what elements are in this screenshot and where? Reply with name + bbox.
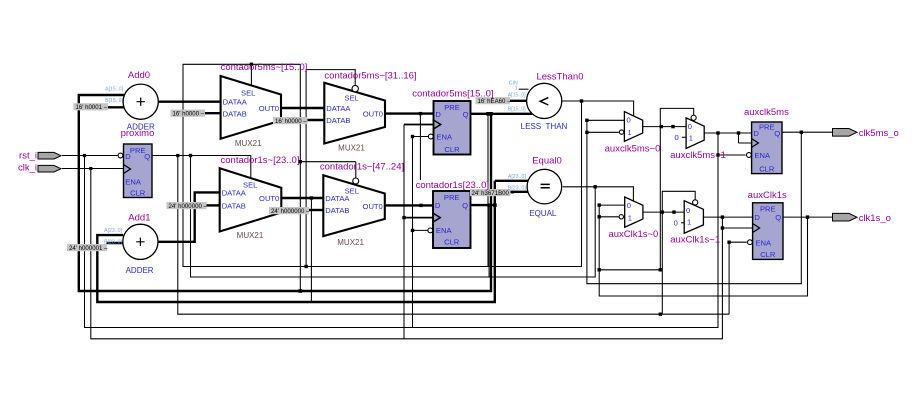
svg-text:1: 1 [628,213,632,222]
svg-text:DATAB: DATAB [325,206,349,215]
svg-text:16' h0000 –: 16' h0000 – [173,111,205,118]
wire auxClk1s~1 const 0 input [681,222,684,224]
wire tie line between aux feedback verticals [599,269,660,271]
svg-text:ENA: ENA [754,151,771,160]
wire LessThan0 CIN tick [519,88,529,90]
svg-text:clk1s_o: clk1s_o [859,213,891,224]
wire MUX3 output junction drop [310,198,312,302]
svg-text:CLR: CLR [444,145,460,154]
svg-text:0: 0 [627,201,631,210]
wire Equal0 output to auxClk1s~0 SEL [563,187,634,201]
wire Add1 B constant [106,242,123,244]
mux auxclk5ms~1 [686,118,704,149]
wire MUX2 output junction drop [419,114,421,180]
svg-text:24' h000000 –: 24' h000000 – [169,203,208,210]
svg-text:0: 0 [688,122,692,131]
svg-text:auxClk1s~1: auxClk1s~1 [670,234,720,245]
svg-text:rst_i: rst_i [19,151,37,162]
svg-text:Q: Q [775,213,781,222]
wire MUX3 DATAB constant [206,204,220,206]
value label 24'h000001 (Add1 B) [67,244,107,251]
wire MUX2 DATAB feedback riser [299,64,301,291]
wire auxclk5ms~0 data inputs from feedback riser [587,120,801,283]
mux21 contador5ms~[31..16] MUX2 [324,83,385,144]
svg-text:auxclk5ms~1: auxclk5ms~1 [670,150,726,161]
svg-text:MUX21: MUX21 [235,139,262,148]
svg-text:DATAA: DATAA [223,98,248,107]
output port clk5ms_o [833,129,858,137]
svg-text:D: D [754,213,760,222]
wire MUX2 SEL tap from B3 [306,70,355,267]
svg-text:PRE: PRE [444,103,460,112]
wire Add0 A input from feedback B1 [79,95,491,291]
svg-text:1: 1 [515,85,518,91]
svg-text:Add1: Add1 [128,213,150,224]
svg-text:24' h000000 –: 24' h000000 – [271,208,310,215]
mux21 contador5ms~[15..0] MUX1 [221,76,281,139]
mux21 contador1s~[47..24] MUX4 [323,175,385,236]
value label 24'h000000 (MUX4 DATAB) [269,207,309,214]
wire Add0 output to MUX1 DATAA [158,100,220,102]
svg-text:LessThan0: LessThan0 [536,71,583,82]
svg-text:ENA: ENA [755,238,772,247]
wire auxClk1s~0 output to auxClk1s~1 [643,211,684,213]
value label 16'h0000 (MUX2 DATAB) [273,117,308,124]
wire clk_i to proximo clock [62,168,124,170]
comparator Equal0 [527,169,562,204]
wire auxclk5ms~1 const 0 input [682,136,686,138]
auxClk1s~0 input 1 bubble [619,215,623,219]
output port clk1s_o [833,213,858,221]
register contador5ms[15..0] [434,101,471,155]
mux auxClk1s~1 [684,201,703,234]
auxclk5ms~1 SEL bubble [691,115,696,120]
wire MUX4 DATAB constant [309,209,323,211]
input port clk_i [38,165,61,172]
wire SEL feed MUX4 from riser [300,162,356,178]
wire auxclk5ms~1 output to auxclk5ms D [704,132,751,134]
wire contador5ms Q into LessThan0 B [471,113,533,115]
wire LessThan0 A constant stub [508,100,527,102]
svg-text:A[15..0]: A[15..0] [508,92,526,98]
wire MUX1 OUT0 to MUX2 DATAA [281,107,324,109]
wire auxClk1s~0 data inputs from feedback riser [599,205,807,296]
auxclk5ms~0 input 1 bubble [619,130,623,134]
svg-text:DATAA: DATAA [325,194,350,203]
wire Add1 A input from feedback B2 [97,181,528,302]
register auxClk1s [753,203,783,260]
value label 16'h0000 (MUX1 DATAB) [171,110,206,117]
wire auxclk5ms clock tap [739,133,752,143]
svg-text:contador1s~[47..24]: contador1s~[47..24] [320,162,404,173]
svg-text:B[15..0]: B[15..0] [105,98,123,104]
svg-text:contador5ms~[15..0]: contador5ms~[15..0] [221,62,308,73]
svg-text:16' h0000 –: 16' h0000 – [275,118,307,125]
wire auxClk1s Q to output port [783,216,833,218]
svg-text:clk_i: clk_i [18,163,37,174]
wire rst_i to proximo D bubble [62,155,118,157]
svg-text:auxClk1s~0: auxClk1s~0 [608,229,658,240]
svg-text:DATAB: DATAB [223,109,247,118]
svg-text:CLR: CLR [444,238,460,247]
wire contador1s Q thin feedback drop [488,205,490,277]
svg-text:0: 0 [674,219,678,228]
wire LessThan0 net drop + bottom run B3 + MUX1 SEL riser [183,64,582,266]
MUX4 SEL bubble [353,178,359,184]
svg-text:D: D [753,129,759,138]
mux21 contador1s~[23..0] MUX3 [220,168,282,231]
svg-text:LESS THAN: LESS THAN [521,122,568,131]
svg-text:D: D [125,152,131,161]
svg-text:A[23..0]: A[23..0] [104,228,122,234]
wire LessThan0 output to auxclk5ms~0 SEL [563,101,634,116]
svg-text:0: 0 [627,116,631,125]
wire contador5ms Q thin feedback drop [487,114,489,267]
wire Add1 output to MUX3 DATAA [158,192,220,241]
wire proximo Q net: down, bottom run B5 [152,156,729,315]
svg-text:ENA: ENA [436,226,453,235]
svg-text:MUX21: MUX21 [237,231,264,240]
comparator LessThan0 [527,83,562,118]
wire rst net: left drop, bottom run, right riser, ENA stubs [85,133,746,328]
register contador1s[23..0] [433,191,471,248]
svg-text:D: D [435,110,441,119]
svg-text:A[23..0]: A[23..0] [508,174,526,180]
svg-text:OUT0: OUT0 [363,110,383,119]
svg-text:Q: Q [144,152,150,161]
wire clk net: left drop, bottom run, right riser, clock stubs [91,169,753,339]
svg-text:OUT0: OUT0 [259,104,279,113]
value label 16'h0001 (Add0 B) [74,103,109,110]
svg-text:ENA: ENA [436,133,453,142]
wire SEL feed auxClk1s~1: riser, run, into bubble [662,191,695,314]
svg-text:PRE: PRE [760,205,776,214]
svg-text:ADDER: ADDER [127,123,155,132]
wire MUX3 OUT0 to MUX4 DATAA [281,197,323,199]
svg-text:contador1s[23..0]: contador1s[23..0] [416,180,489,191]
wire ENA mid riser + stubs to contador FF enables [413,137,429,328]
svg-text:auxClk1s: auxClk1s [748,190,787,201]
svg-text:clk5ms_o: clk5ms_o [859,128,899,139]
svg-text:PRE: PRE [444,193,460,202]
svg-text:auxclk5ms: auxclk5ms [744,107,789,118]
svg-text:0: 0 [675,133,679,142]
svg-text:OUT0: OUT0 [363,202,383,211]
svg-text:auxclk5ms~0: auxclk5ms~0 [605,143,661,154]
junction dots [83,154,86,157]
wire clock stubs into contador registers [404,125,434,218]
wire auxClk1s ENA feed from B5 [729,242,747,314]
mux auxclk5ms~0 [624,112,642,142]
svg-text:Q: Q [463,110,469,119]
wire Equal0 B constant stub [509,191,528,193]
svg-text:MUX21: MUX21 [338,144,365,153]
svg-text:contador1s~[23..0]: contador1s~[23..0] [221,155,300,166]
wire auxclk5ms Q to output port [782,131,833,133]
svg-text:DATAA: DATAA [222,189,247,198]
svg-text:Add0: Add0 [128,70,150,81]
svg-text:16' h0001 –: 16' h0001 – [76,104,108,111]
svg-text:SEL: SEL [345,94,359,103]
register auxclk5ms [752,122,782,174]
wire SEL feed auxclk5ms~1: riser, top run, into bubble [660,108,693,269]
adder Add0 [123,84,158,119]
svg-text:contador5ms[15..0]: contador5ms[15..0] [412,88,493,99]
svg-text:1: 1 [628,128,632,137]
svg-text:24' h000001 –: 24' h000001 – [69,245,108,252]
wire Equal0 net drop + bottom run B4 [191,156,596,278]
adder Add1 [123,224,158,259]
register proximo [124,144,153,198]
svg-text:DATAA: DATAA [326,104,351,113]
svg-text:PRE: PRE [759,122,775,131]
svg-text:Q: Q [774,129,780,138]
auxClk1s~1 SEL bubble [693,200,698,205]
wire MUX2 OUT0 to contador5ms D [385,112,434,114]
svg-text:Q: Q [462,201,468,210]
svg-text:DATAB: DATAB [222,202,246,211]
svg-text:B[23..0]: B[23..0] [508,185,526,191]
input port rst_i [38,152,61,159]
svg-text:SEL: SEL [241,89,255,98]
svg-text:OUT0: OUT0 [259,194,279,203]
MUX2 SEL bubble [352,85,358,91]
wire auxClk1s~1 output to auxClk1s D [703,216,752,218]
wire auxclk5ms~0 output to auxclk5ms~1 [643,126,686,128]
wire MUX1 DATAB constant [204,112,220,114]
value label 24'h3671B00 (Equal B) [470,189,511,196]
svg-text:CLR: CLR [130,189,146,198]
wire contador1s Q [471,204,495,206]
svg-text:ADDER: ADDER [126,266,154,275]
svg-text:CLR: CLR [760,250,776,259]
svg-text:PRE: PRE [130,146,146,155]
svg-text:contador5ms~[31..16]: contador5ms~[31..16] [324,71,416,82]
svg-text:DATAB: DATAB [326,116,350,125]
svg-text:Equal0: Equal0 [532,155,562,166]
svg-text:1: 1 [689,133,693,142]
svg-text:D: D [435,201,441,210]
wire Add0 B constant [108,106,125,108]
svg-text:B[15..0]: B[15..0] [508,107,526,113]
svg-text:MUX21: MUX21 [337,238,364,247]
mux auxClk1s~0 [625,197,643,227]
wire MUX4 OUT0 to contador1s D [385,204,433,206]
svg-text:CLR: CLR [759,164,775,173]
svg-text:A[15..0]: A[15..0] [105,87,123,93]
value label 24'h000000 (MUX3 DATAB) [167,202,207,209]
svg-text:B[23..0]: B[23..0] [104,239,122,245]
svg-text:EQUAL: EQUAL [529,209,557,218]
value label 16'hEA60 (LessThan B) [476,97,511,104]
wire clk mid riser + stubs to contador FF clocks [403,125,405,339]
svg-text:ENA: ENA [125,177,142,186]
svg-text:0: 0 [686,206,690,215]
wire MUX2 DATAB feedback stub [300,119,324,121]
svg-text:1: 1 [687,218,691,227]
